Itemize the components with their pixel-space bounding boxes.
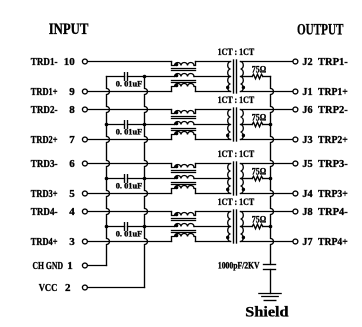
svg-text:3: 3 <box>69 236 75 248</box>
transformer T3 ratio label 1CT : 1CT <box>218 149 255 159</box>
shield earth ground symbol <box>259 294 281 301</box>
pin 1 CH GND terminal <box>82 263 87 268</box>
wire T3 secondary center tap to R3 <box>241 178 253 180</box>
pin 4 TRD4- terminal <box>82 209 87 214</box>
junction: termination bus / R3 <box>269 177 273 181</box>
wire channel 1 center tap (VCC rail to CMC middle winding) <box>145 76 175 78</box>
wire T1 secondary bottom to J1 <box>241 91 293 93</box>
svg-text:J4: J4 <box>302 188 313 200</box>
svg-text:TRD2+: TRD2+ <box>31 134 58 146</box>
capacitor C3 0.01uF <box>107 175 145 191</box>
wire L1 to T1 primary (bottom) <box>196 91 231 93</box>
svg-text:8: 8 <box>69 104 75 116</box>
junction: termination bus / R2 <box>269 123 273 127</box>
resistor R2 75&#937; <box>252 113 267 127</box>
pin 4 TRD4- label <box>31 206 76 218</box>
pin 9 TRD1+ label <box>31 86 76 98</box>
wire T1 secondary top to J2 <box>241 61 293 63</box>
svg-text:J5: J5 <box>302 158 313 170</box>
wire R3 to termination bus <box>263 178 271 180</box>
svg-text:1: 1 <box>67 260 73 272</box>
wire pin 3 to choke <box>88 241 171 243</box>
svg-text:75Ω: 75Ω <box>252 215 267 225</box>
junction: ground rail / C2 <box>105 123 109 127</box>
svg-text:TRD3+: TRD3+ <box>31 188 58 200</box>
transformer T4 1CT:1CT <box>226 210 245 243</box>
wire C5 to shield ground <box>270 270 272 294</box>
wire T2 secondary bottom to J3 <box>241 139 293 141</box>
junction: VCC rail / channel 2 center tap <box>143 123 147 127</box>
junction: ground rail / C4 <box>105 225 109 229</box>
output label J8 TRP4- <box>302 206 348 218</box>
transformer T2 1CT:1CT <box>226 108 245 141</box>
svg-text:TRP3-: TRP3- <box>318 158 348 170</box>
output terminal J2 <box>293 59 298 64</box>
ground rail (net CH GND) with wire hops <box>107 77 110 266</box>
output label J4 TRP3+ <box>302 188 347 200</box>
pin 5 TRD3+ terminal <box>82 191 87 196</box>
svg-text:10: 10 <box>64 56 76 68</box>
svg-text:TRP4-: TRP4- <box>318 206 348 218</box>
wire L1 to T1 primary (top) <box>196 61 231 63</box>
svg-text:4: 4 <box>69 206 75 218</box>
termination bus (75-ohm common node) with wire hops <box>271 77 274 265</box>
OUTPUT header <box>297 22 344 39</box>
junction: VCC rail / channel 4 center tap <box>143 225 147 229</box>
output label J5 TRP3- <box>302 158 348 170</box>
transformer T3 1CT:1CT <box>226 162 245 195</box>
wire L4 to T4 primary (bottom) <box>196 241 231 243</box>
output terminal J8 <box>293 209 298 214</box>
pin 7 TRD2+ terminal <box>82 137 87 142</box>
svg-text:J3: J3 <box>302 134 313 146</box>
wire T2 secondary center tap to R2 <box>241 124 253 126</box>
transformer T1 ratio label 1CT : 1CT <box>218 47 255 57</box>
output terminal J7 <box>293 239 298 244</box>
wire L4 to T4 primary (center tap) <box>194 226 231 228</box>
svg-text:J7: J7 <box>302 236 313 248</box>
VCC rail (net VCC) with wire hops <box>145 77 148 288</box>
svg-text:OUTPUT: OUTPUT <box>297 22 344 39</box>
junction: VCC rail / channel 3 center tap <box>143 177 147 181</box>
svg-text:0. 01uF: 0. 01uF <box>116 180 143 190</box>
Shield label <box>245 305 289 321</box>
svg-text:TRP1+: TRP1+ <box>318 86 348 98</box>
svg-text:75Ω: 75Ω <box>252 65 267 75</box>
capacitor C4 0.01uF <box>107 223 145 239</box>
wire channel 2 center tap (VCC rail to CMC middle winding) <box>145 124 175 126</box>
svg-text:5: 5 <box>69 188 75 200</box>
wire L2 to T2 primary (center tap) <box>194 124 231 126</box>
svg-text:J2: J2 <box>302 56 313 68</box>
wire pin 7 to choke <box>88 139 171 141</box>
svg-text:INPUT: INPUT <box>49 21 89 38</box>
capacitor C2 0.01uF <box>107 121 145 137</box>
wire T2 secondary top to J6 <box>241 109 293 111</box>
svg-text:75Ω: 75Ω <box>252 113 267 123</box>
svg-text:1CT : 1CT: 1CT : 1CT <box>218 95 255 105</box>
svg-text:6: 6 <box>69 158 75 170</box>
wire L3 to T3 primary (bottom) <box>196 193 231 195</box>
svg-text:CH GND: CH GND <box>33 260 64 272</box>
wire T3 secondary bottom to J4 <box>241 193 293 195</box>
wire T4 secondary center tap to R4 <box>241 226 253 228</box>
output terminal J5 <box>293 161 298 166</box>
svg-text:J1: J1 <box>302 86 312 98</box>
wire channel 4 center tap (VCC rail to CMC middle winding) <box>145 226 175 228</box>
resistor R3 75&#937; <box>252 167 267 181</box>
svg-text:Shield: Shield <box>245 305 289 321</box>
common-mode choke L1 (three coupled windings) <box>172 62 196 92</box>
pin 6 TRD3- terminal <box>82 161 87 166</box>
svg-text:J6: J6 <box>302 104 313 116</box>
pin 6 TRD3- label <box>31 158 76 170</box>
wire pin 6 to choke <box>88 163 171 165</box>
svg-text:1CT : 1CT: 1CT : 1CT <box>218 47 255 57</box>
svg-text:1CT : 1CT: 1CT : 1CT <box>218 149 255 159</box>
pin 9 TRD1+ terminal <box>82 89 87 94</box>
svg-text:0. 01uF: 0. 01uF <box>116 228 143 238</box>
wire T4 secondary top to J8 <box>241 211 293 213</box>
junction: termination bus / R4 <box>269 225 273 229</box>
wire pin 1 to ground rail <box>88 265 106 267</box>
wire L1 to T1 primary (center tap) <box>194 76 231 78</box>
svg-text:TRP2+: TRP2+ <box>318 134 348 146</box>
pin 10 TRD1- label <box>31 56 76 68</box>
output label J3 TRP2+ <box>302 134 347 146</box>
svg-text:TRD2-: TRD2- <box>31 104 58 116</box>
transformer T2 ratio label 1CT : 1CT <box>218 95 255 105</box>
output label J1 TRP1+ <box>302 86 347 98</box>
capacitor C1 0.01uF <box>107 73 145 89</box>
pin 2 VCC terminal <box>82 285 87 290</box>
wire pin 10 to choke <box>88 61 171 63</box>
svg-text:TRP1-: TRP1- <box>318 56 348 68</box>
pin 3 TRD4+ label <box>31 236 76 248</box>
INPUT header <box>49 21 89 38</box>
svg-text:VCC: VCC <box>39 282 58 294</box>
wire R1 to termination bus <box>263 76 271 78</box>
output label J6 TRP2- <box>302 104 348 116</box>
pin 8 TRD2- label <box>31 104 76 116</box>
output terminal J6 <box>293 107 298 112</box>
wire L3 to T3 primary (top) <box>196 163 231 165</box>
wire R4 to termination bus <box>263 226 271 228</box>
wire L2 to T2 primary (bottom) <box>196 139 231 141</box>
svg-text:TRP3+: TRP3+ <box>318 188 348 200</box>
svg-text:TRD1-: TRD1- <box>31 56 58 68</box>
output label J2 TRP1- <box>302 56 348 68</box>
svg-text:TRP2-: TRP2- <box>318 104 348 116</box>
wire channel 3 center tap (VCC rail to CMC middle winding) <box>145 178 175 180</box>
svg-text:TRP4+: TRP4+ <box>318 236 348 248</box>
wire L3 to T3 primary (center tap) <box>194 178 231 180</box>
svg-text:J8: J8 <box>302 206 313 218</box>
wire pin 8 to choke <box>88 109 171 111</box>
wire T1 secondary center tap to R1 <box>241 76 253 78</box>
pin 3 TRD4+ terminal <box>82 239 87 244</box>
wire pin 4 to choke <box>88 211 171 213</box>
svg-text:1000pF/2KV: 1000pF/2KV <box>218 261 260 271</box>
pin 7 TRD2+ label <box>31 134 76 146</box>
pin 5 TRD3+ label <box>31 188 76 200</box>
wire pin 2 to VCC rail <box>88 287 144 289</box>
pin 10 TRD1- terminal <box>82 59 87 64</box>
svg-text:TRD4-: TRD4- <box>31 206 58 218</box>
output terminal J4 <box>293 191 298 196</box>
svg-text:7: 7 <box>69 134 75 146</box>
wire pin 9 to choke <box>88 91 171 93</box>
wire L4 to T4 primary (top) <box>196 211 231 213</box>
svg-text:2: 2 <box>65 282 71 294</box>
resistor R1 75&#937; <box>252 65 267 79</box>
output terminal J3 <box>293 137 298 142</box>
junction: ground rail / C3 <box>105 177 109 181</box>
wire T3 secondary top to J5 <box>241 163 293 165</box>
pin 1 CH GND label <box>33 260 73 272</box>
svg-text:TRD3-: TRD3- <box>31 158 58 170</box>
svg-text:0. 01uF: 0. 01uF <box>116 78 143 88</box>
svg-text:TRD1+: TRD1+ <box>31 86 58 98</box>
pin 2 VCC label <box>39 282 71 294</box>
capacitor C5 1000pF/2KV <box>218 261 276 271</box>
pin 8 TRD2- terminal <box>82 107 87 112</box>
output terminal J1 <box>293 89 298 94</box>
svg-text:TRD4+: TRD4+ <box>31 236 58 248</box>
wire L2 to T2 primary (top) <box>196 109 231 111</box>
wire T4 secondary bottom to J7 <box>241 241 293 243</box>
resistor R4 75&#937; <box>252 215 267 229</box>
junction: VCC rail / channel 1 center tap <box>143 75 147 79</box>
common-mode choke L3 (three coupled windings) <box>172 164 196 194</box>
common-mode choke L2 (three coupled windings) <box>172 110 196 140</box>
transformer T1 1CT:1CT <box>226 60 245 93</box>
svg-text:1CT : 1CT: 1CT : 1CT <box>218 197 255 207</box>
wire pin 5 to choke <box>88 193 171 195</box>
svg-text:0. 01uF: 0. 01uF <box>116 126 143 136</box>
transformer T4 ratio label 1CT : 1CT <box>218 197 255 207</box>
output label J7 TRP4+ <box>302 236 347 248</box>
common-mode choke L4 (three coupled windings) <box>172 212 196 242</box>
svg-text:9: 9 <box>69 86 75 98</box>
svg-text:75Ω: 75Ω <box>252 167 267 177</box>
wire R2 to termination bus <box>263 124 271 126</box>
